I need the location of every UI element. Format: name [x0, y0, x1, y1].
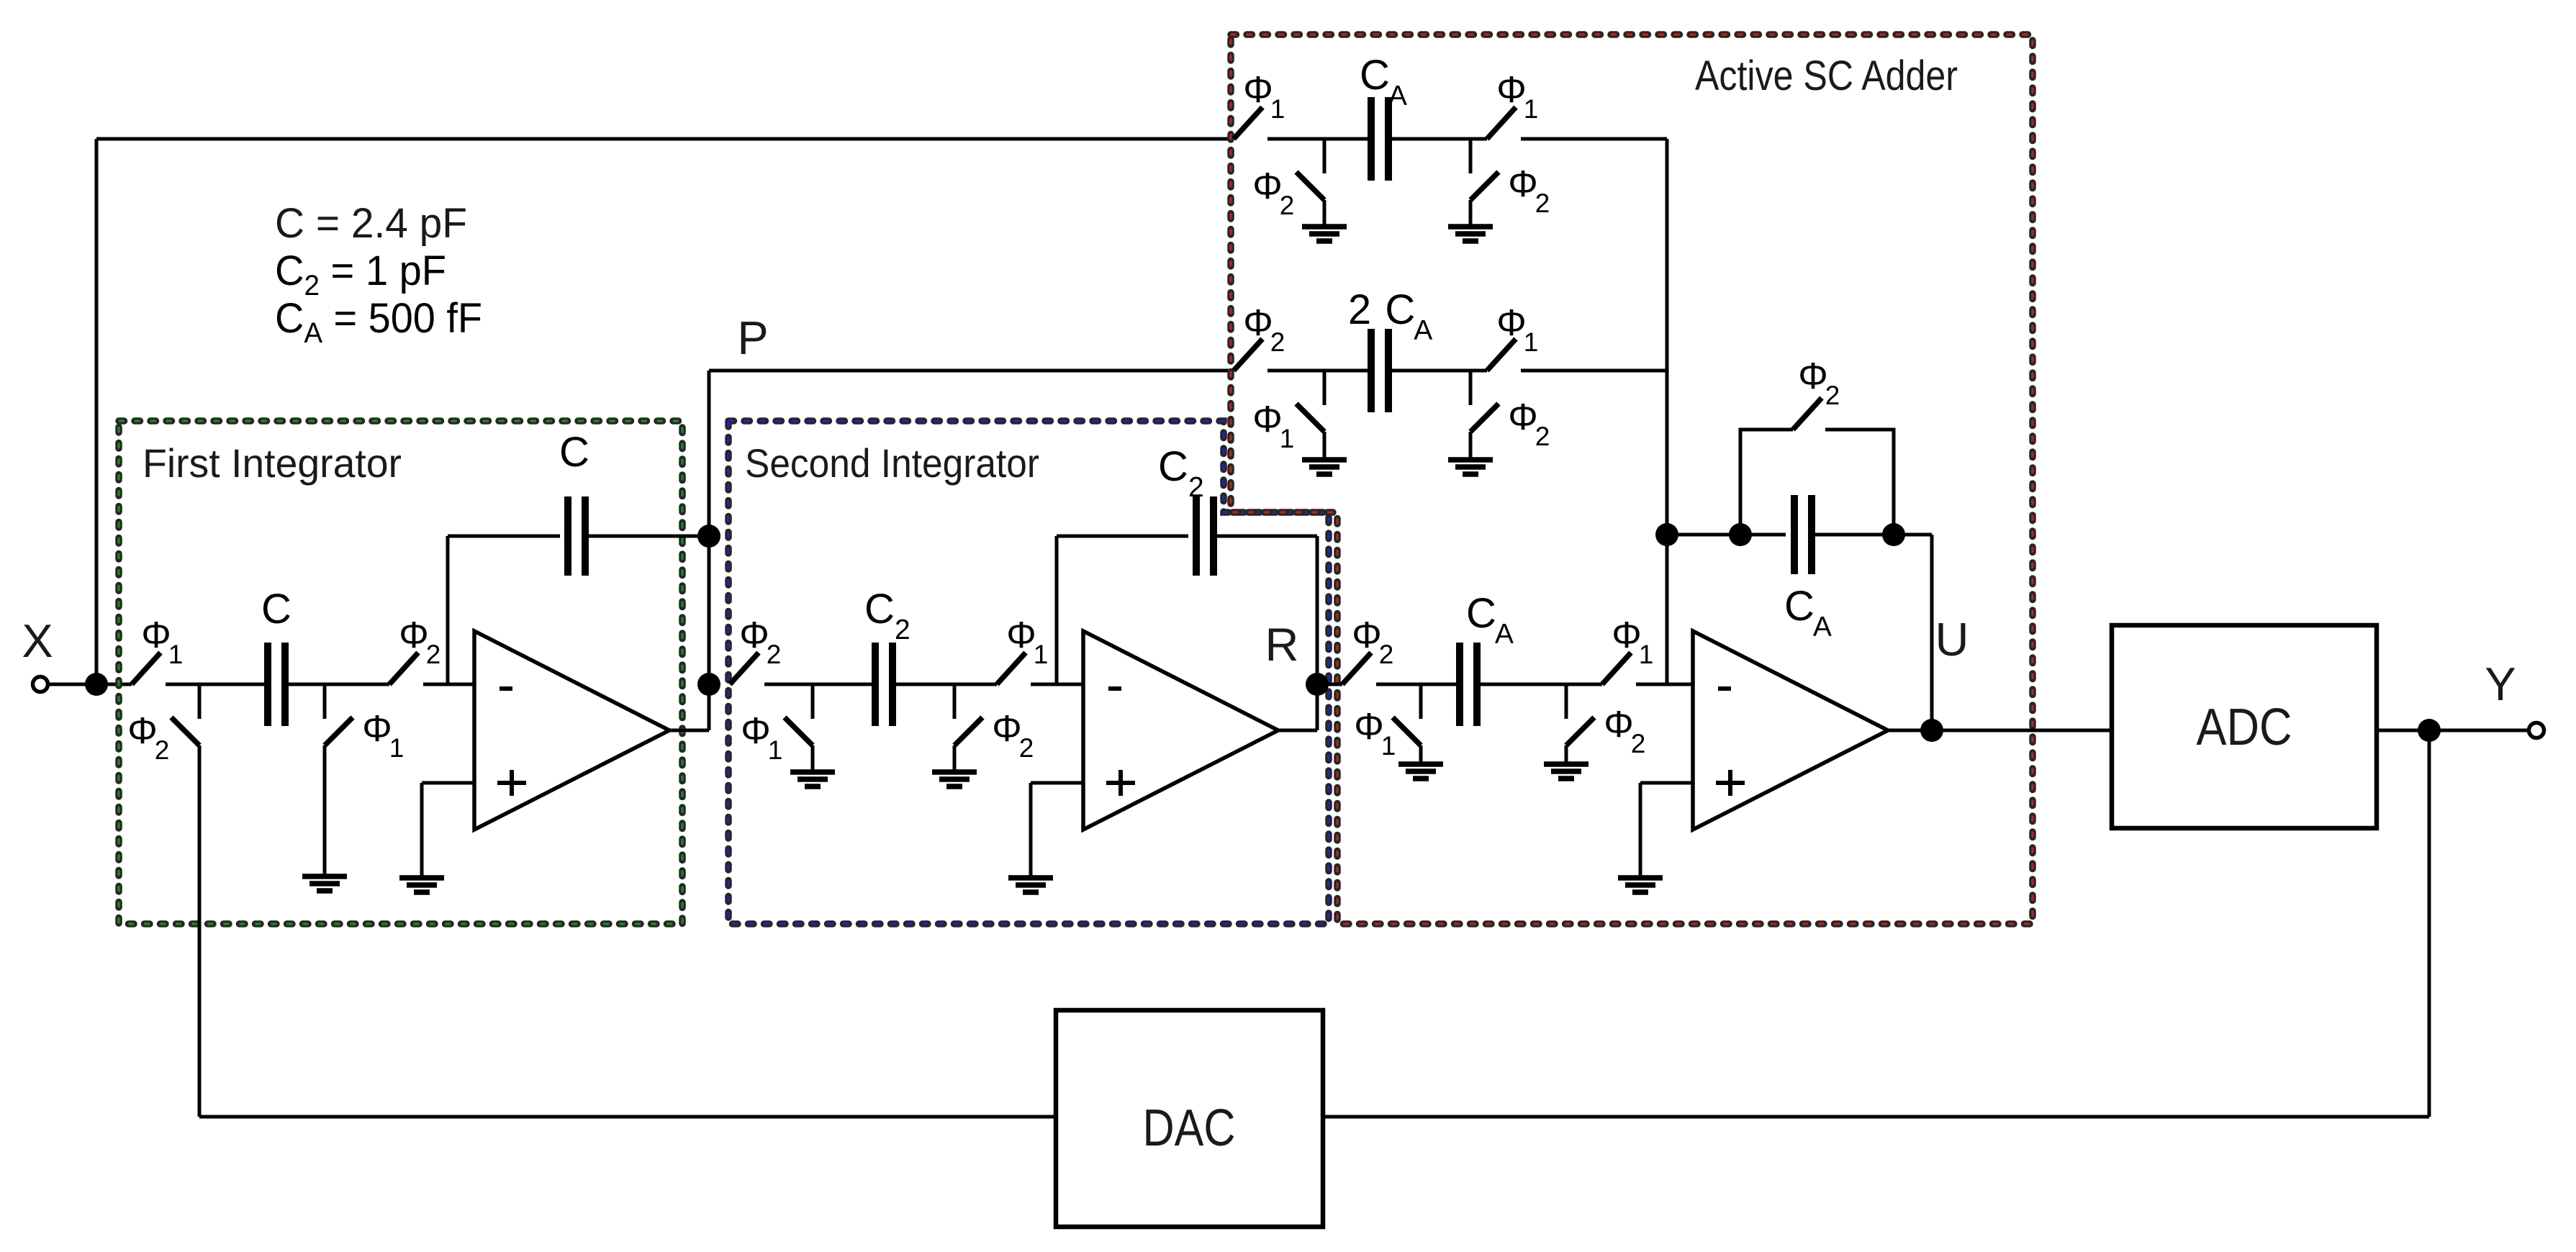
wire S9 to capacitor CA: [1267, 137, 1371, 141]
terminal Y: [2485, 658, 2544, 738]
svg-text:Φ: Φ: [1006, 614, 1036, 656]
terminal X: [22, 614, 53, 692]
svg-text:Φ: Φ: [739, 614, 769, 656]
op-amp U2: [1083, 631, 1278, 830]
node feedback left loop: [1729, 523, 1752, 546]
capacitor C2 (input, second integrator): [864, 586, 910, 726]
wire S5 to capacitor C2: [764, 683, 875, 686]
ground S7: [932, 772, 977, 786]
svg-text:2: 2: [1535, 422, 1550, 451]
ground S14: [1302, 460, 1347, 474]
node U label: [1935, 613, 1969, 666]
svg-text:2: 2: [1348, 286, 1371, 333]
svg-text:2: 2: [1631, 729, 1646, 758]
svg-text:2: 2: [426, 640, 441, 669]
svg-text:Φ: Φ: [141, 614, 171, 656]
svg-text:R: R: [1265, 618, 1299, 671]
svg-text:Φ: Φ: [1508, 396, 1538, 438]
capacitor 2CA (adder mid branch): [1348, 286, 1432, 412]
DAC block: [1056, 1010, 1323, 1227]
node summing feedback tap: [1655, 523, 1678, 546]
wire reset loop: [1740, 430, 1894, 535]
wire S20 to op-amp U3: [1477, 683, 1693, 686]
svg-text:Φ: Φ: [992, 708, 1022, 750]
switch Φ1 S16 (mid branch right series): [1487, 302, 1538, 371]
wire DAC output to first integrator: [199, 1115, 1056, 1119]
svg-text:C: C: [1158, 443, 1188, 490]
wire S13 to capacitor 2CA: [1267, 369, 1371, 373]
capacitor C (input, first integrator): [261, 586, 292, 726]
wire S17 to capacitor CA: [1317, 683, 1460, 686]
wire S6 to ground: [811, 745, 815, 772]
wire S15 to ground: [1469, 432, 1473, 460]
svg-text:1: 1: [768, 735, 783, 765]
wire S10 to ground: [1323, 200, 1327, 227]
wire node P horizontal: [709, 369, 1234, 373]
switch Φ2 S7 (ground branch): [954, 684, 1034, 763]
wire U2 non-inverting input: [1031, 783, 1083, 878]
wire S18 to ground: [1419, 745, 1423, 764]
svg-text:Φ: Φ: [1243, 302, 1273, 344]
switch Φ1 S12 (top branch right series): [1487, 69, 1538, 139]
switch Φ2 S4 (series to op-amp): [389, 614, 440, 684]
svg-text:2: 2: [895, 614, 910, 645]
svg-text:Φ: Φ: [1508, 163, 1538, 205]
wire Y to DAC input: [1323, 1115, 2429, 1119]
svg-text:1: 1: [1524, 327, 1539, 357]
svg-text:1: 1: [1034, 640, 1049, 669]
svg-text:Φ: Φ: [1354, 706, 1384, 748]
svg-text:1: 1: [1280, 424, 1295, 453]
wire U1 output to node P riser: [669, 371, 709, 730]
switch Φ1 S6 (ground branch): [741, 684, 813, 765]
wire mid branch to summing riser: [1388, 369, 1667, 373]
wire U2 output to node R: [1278, 536, 1317, 730]
switch Φ1 S1 (first integrator input sampling): [132, 614, 183, 684]
wire U3 output to ADC: [1888, 729, 2112, 732]
wire S3 to ground: [323, 745, 327, 876]
wire S11 to ground: [1469, 200, 1473, 227]
svg-text:Φ: Φ: [399, 614, 429, 656]
wire S1 to capacitor C: [166, 683, 268, 686]
svg-text:Φ: Φ: [1252, 165, 1283, 207]
label C value: [275, 200, 467, 247]
svg-text:1: 1: [1639, 640, 1654, 669]
Second Integrator box: [728, 421, 1329, 924]
svg-text:2: 2: [1825, 381, 1840, 410]
svg-text:1: 1: [1381, 731, 1396, 761]
capacitor CA (adder feedback): [1784, 495, 1832, 643]
svg-text:Φ: Φ: [1243, 69, 1273, 111]
svg-text:Φ: Φ: [1612, 614, 1642, 656]
wire S14 to ground: [1323, 432, 1327, 460]
svg-text:C2 = 1 pF: C2 = 1 pF: [275, 248, 446, 301]
switch Φ2 S13 (adder mid branch left): [1234, 302, 1285, 371]
switch Φ2 S2 (DAC feedback branch): [127, 684, 199, 765]
switch Φ1 S14 (mid branch left ground): [1252, 371, 1324, 453]
node P junction on main row: [697, 673, 720, 696]
wire U2 inverting input riser: [1055, 536, 1059, 684]
ground S6: [790, 772, 835, 786]
wire S2 down to DAC line: [198, 745, 202, 1117]
svg-text:2: 2: [155, 735, 170, 765]
svg-text:Second Integrator: Second Integrator: [745, 440, 1039, 486]
node feedback right loop: [1882, 523, 1905, 546]
svg-text:1: 1: [1524, 94, 1539, 124]
ground U2 non-inverting: [1008, 878, 1053, 892]
ground U3 non-inverting: [1618, 878, 1663, 892]
ground S3: [302, 876, 347, 891]
ground U1 non-inverting: [399, 878, 444, 892]
svg-text:2: 2: [1535, 189, 1550, 218]
svg-text:C: C: [1466, 590, 1496, 637]
svg-text:Φ: Φ: [741, 710, 771, 752]
wire U1 non-inverting input: [422, 783, 474, 878]
label C2 value: [275, 248, 446, 301]
ground S19: [1544, 764, 1588, 779]
svg-text:C: C: [559, 429, 589, 476]
svg-text:2: 2: [1280, 191, 1295, 220]
svg-text:U: U: [1935, 613, 1969, 666]
svg-text:2: 2: [767, 640, 782, 669]
capacitor C2 (feedback, second integrator): [1158, 443, 1214, 576]
svg-text:1: 1: [1270, 94, 1285, 124]
svg-text:DAC: DAC: [1143, 1099, 1236, 1157]
switch Φ2 S10 (top branch left ground): [1252, 139, 1324, 220]
svg-text:C: C: [864, 586, 895, 632]
svg-text:Y: Y: [2485, 658, 2516, 710]
wire ADC to Y: [2377, 729, 2528, 732]
svg-text:2: 2: [1019, 733, 1034, 763]
svg-text:X: X: [22, 614, 53, 667]
svg-text:Φ: Φ: [1496, 302, 1527, 344]
switch Φ1 S3 (ground branch): [325, 684, 404, 763]
switch Φ1 S18 (bottom branch ground): [1354, 684, 1421, 761]
svg-text:1: 1: [168, 640, 184, 669]
node U output junction: [1920, 719, 1943, 742]
svg-text:P: P: [737, 312, 768, 364]
First Integrator box: [119, 421, 682, 924]
wire feedback to output node: [1930, 535, 1934, 730]
svg-text:A: A: [1388, 81, 1407, 112]
wire top branch to summing riser: [1388, 137, 1667, 141]
svg-text:Φ: Φ: [362, 708, 392, 750]
node first feedback junction: [697, 525, 720, 548]
capacitor C (feedback, first integrator): [559, 429, 589, 576]
wire feedback second integrator: [1057, 535, 1317, 538]
svg-text:Φ: Φ: [1496, 69, 1527, 111]
wire X node to top feedforward: [95, 139, 99, 684]
switch Φ1 S20 (series to op-amp U3): [1602, 614, 1653, 684]
svg-text:C: C: [1784, 583, 1815, 630]
ADC block: [2112, 625, 2377, 828]
wire S8 to op-amp U2: [892, 683, 1083, 686]
svg-text:Φ: Φ: [1604, 704, 1634, 745]
label CA value: [275, 295, 482, 349]
op-amp U3: [1693, 631, 1888, 830]
svg-text:First Integrator: First Integrator: [143, 440, 402, 486]
node Y junction: [2418, 719, 2441, 742]
wire summing riser: [1666, 139, 1669, 684]
wire Y node down to DAC: [2428, 730, 2431, 1117]
switch Φ2 S21 (reset across CA): [1793, 355, 1840, 430]
svg-text:C: C: [1385, 286, 1415, 333]
capacitor CA (adder top branch): [1360, 52, 1407, 181]
svg-text:2: 2: [1270, 327, 1285, 357]
svg-text:Active SC Adder: Active SC Adder: [1695, 53, 1958, 99]
svg-text:C: C: [1360, 52, 1390, 99]
svg-text:Φ: Φ: [127, 710, 158, 752]
switch Φ1 S9 (adder top branch left): [1234, 69, 1285, 139]
wire U3 non-inverting input: [1640, 783, 1693, 878]
wire S4 to op-amp U1: [423, 683, 474, 686]
wire top feedforward to adder: [96, 137, 1234, 141]
svg-text:C: C: [261, 586, 292, 632]
ground S10: [1302, 227, 1347, 241]
wire adder feedback row: [1667, 533, 1932, 537]
node R label: [1265, 618, 1299, 671]
svg-text:ADC: ADC: [2197, 699, 2292, 756]
svg-text:C = 2.4 pF: C = 2.4 pF: [275, 200, 467, 247]
svg-text:Φ: Φ: [1352, 614, 1382, 656]
node X junction: [85, 673, 108, 696]
svg-text:A: A: [1813, 612, 1832, 643]
node P label: [737, 312, 768, 364]
ground S18: [1398, 764, 1443, 779]
switch Φ2 S19 (bottom branch ground right): [1566, 684, 1645, 758]
svg-text:A: A: [1414, 315, 1432, 346]
switch Φ2 S11 (top branch right ground): [1470, 139, 1550, 218]
svg-text:Φ: Φ: [1252, 399, 1283, 440]
switch Φ2 S17 (adder input from R): [1342, 614, 1393, 684]
wire capacitor C to S4: [285, 683, 389, 686]
ground S11: [1448, 227, 1493, 241]
svg-text:2: 2: [1379, 640, 1394, 669]
wire U1 inverting input riser: [446, 536, 450, 684]
Active SC Adder box: [1231, 35, 2033, 924]
svg-text:2: 2: [1188, 472, 1204, 503]
op-amp U1: [474, 631, 669, 830]
wire feedback first integrator: [448, 535, 709, 538]
wire S7 to ground: [953, 745, 957, 772]
svg-text:A: A: [1495, 619, 1514, 650]
switch Φ2 S5 (second integrator input): [730, 614, 781, 684]
switch Φ1 S8 (series to op-amp U2): [997, 614, 1048, 684]
node R junction: [1306, 673, 1329, 696]
ground S15: [1448, 460, 1493, 474]
capacitor CA (adder bottom branch): [1460, 590, 1514, 726]
svg-text:Φ: Φ: [1798, 355, 1828, 397]
wire X to node: [48, 683, 132, 686]
wire S19 to ground: [1565, 745, 1568, 764]
switch Φ2 S15 (mid branch right ground): [1470, 371, 1550, 451]
svg-text:1: 1: [389, 733, 405, 763]
